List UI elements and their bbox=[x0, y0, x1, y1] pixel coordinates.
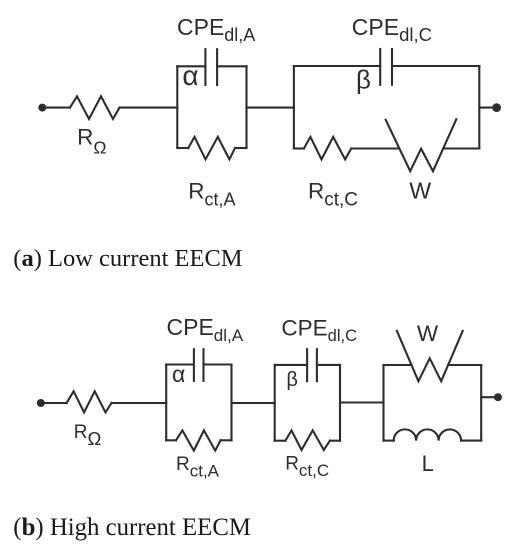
svg-text:W: W bbox=[409, 178, 431, 204]
wire: parallel block 2 left edge (a) bbox=[293, 66, 295, 149]
wire: left terminal to R_Omega (b) bbox=[44, 402, 67, 404]
wire: top branch left of W (b) bbox=[384, 364, 412, 366]
capacitor CPE_dl,C (a) bbox=[380, 49, 392, 85]
wire: top branch right of CPE_dl,C (b) bbox=[317, 364, 340, 366]
wire: top branch right of CPE_dl,A (b) bbox=[204, 363, 232, 365]
svg-text:β: β bbox=[286, 369, 298, 391]
resistor R_ct,A (b) bbox=[176, 430, 221, 450]
resistor R_Omega (a) bbox=[70, 96, 120, 119]
wire: block 1 to block 2 (b) bbox=[232, 402, 275, 404]
capacitor CPE_dl,A (a) bbox=[205, 49, 217, 85]
wire: parallel block 1 right edge (a) bbox=[245, 66, 247, 148]
resistor R_Omega (b) bbox=[67, 391, 112, 412]
wire: parallel block 3 right edge (b) bbox=[480, 365, 482, 441]
wire: bottom branch left of R_ct,A (a) bbox=[177, 147, 188, 149]
wire: bottom branch left of R_ct,C (b) bbox=[275, 440, 286, 442]
Warburg element W (b) bbox=[397, 331, 463, 381]
wire: bottom branch right of R_ct,A (b) bbox=[221, 439, 232, 441]
wire: block 2 to right terminal (a) bbox=[479, 107, 493, 109]
svg-text:(b) High current EECM: (b) High current EECM bbox=[13, 514, 251, 541]
wire: top branch left of CPE_dl,C (a) bbox=[294, 65, 380, 67]
wire: bottom branch right of L (b) bbox=[461, 440, 481, 442]
wire: parallel block 2 right edge (b) bbox=[339, 365, 341, 441]
wire: block 2 to block 3 (b) bbox=[340, 401, 384, 403]
svg-text:β: β bbox=[356, 65, 371, 95]
wire: left terminal to R_Omega (a) bbox=[45, 107, 70, 109]
inductor L (b) bbox=[394, 429, 461, 440]
svg-text:α: α bbox=[172, 361, 185, 387]
wire: R_ct,C to W (a) bbox=[351, 147, 399, 149]
resistor R_ct,C (a) bbox=[304, 137, 351, 160]
capacitor CPE_dl,A (b) bbox=[194, 349, 204, 381]
wire: top branch left of CPE_dl,C (b) bbox=[275, 364, 307, 366]
wire: parallel block 3 left edge (b) bbox=[382, 365, 384, 441]
svg-text:α: α bbox=[182, 60, 198, 91]
wire: top branch left of CPE_dl,A (b) bbox=[166, 363, 194, 365]
wire: top branch right of CPE_dl,C (a) bbox=[392, 65, 479, 67]
wire: parallel block 1 right edge (b) bbox=[230, 365, 232, 441]
wire: parallel block 2 right edge (a) bbox=[478, 66, 480, 149]
svg-text:(a) Low current EECM: (a) Low current EECM bbox=[13, 245, 243, 272]
resistor R_ct,A (a) bbox=[188, 137, 235, 160]
wire: bottom branch left of R_ct,A (b) bbox=[166, 439, 176, 441]
svg-text:W: W bbox=[417, 321, 439, 346]
wire: parallel block 1 left edge (a) bbox=[176, 66, 178, 148]
wire: bottom branch right of R_ct,C (b) bbox=[330, 440, 340, 442]
wire: top branch left of CPE_dl,A (a) bbox=[177, 65, 205, 67]
wire: W to block 2 right edge (a) bbox=[443, 147, 479, 149]
resistor R_ct,C (b) bbox=[285, 430, 330, 450]
svg-text:L: L bbox=[422, 451, 434, 476]
node: right terminal dot (a) bbox=[492, 103, 501, 112]
wire: block 1 to block 2 (a) bbox=[247, 107, 294, 109]
wire: block 3 to right terminal (b) bbox=[481, 396, 494, 398]
wire: top branch right of W (b) bbox=[448, 364, 481, 366]
wire: bottom branch right of R_ct,A (a) bbox=[235, 147, 247, 149]
wire: parallel block 1 left edge (b) bbox=[165, 365, 167, 441]
node: left terminal dot (b) bbox=[37, 399, 45, 407]
wire: R_Omega to parallel block 1 (b) bbox=[112, 402, 167, 404]
Warburg element W (a) bbox=[386, 119, 457, 171]
node: right terminal dot (b) bbox=[494, 393, 502, 401]
capacitor CPE_dl,C (b) bbox=[307, 349, 317, 381]
wire: bottom branch left of R_ct,C (a) bbox=[294, 147, 304, 149]
wire: bottom branch left of L (b) bbox=[384, 440, 394, 442]
wire: top branch right of CPE_dl,A (a) bbox=[217, 65, 246, 67]
wire: R_Omega to parallel block 1 (a) bbox=[120, 107, 178, 109]
node: left terminal dot (a) bbox=[38, 104, 46, 112]
wire: parallel block 2 left edge (b) bbox=[274, 365, 276, 441]
